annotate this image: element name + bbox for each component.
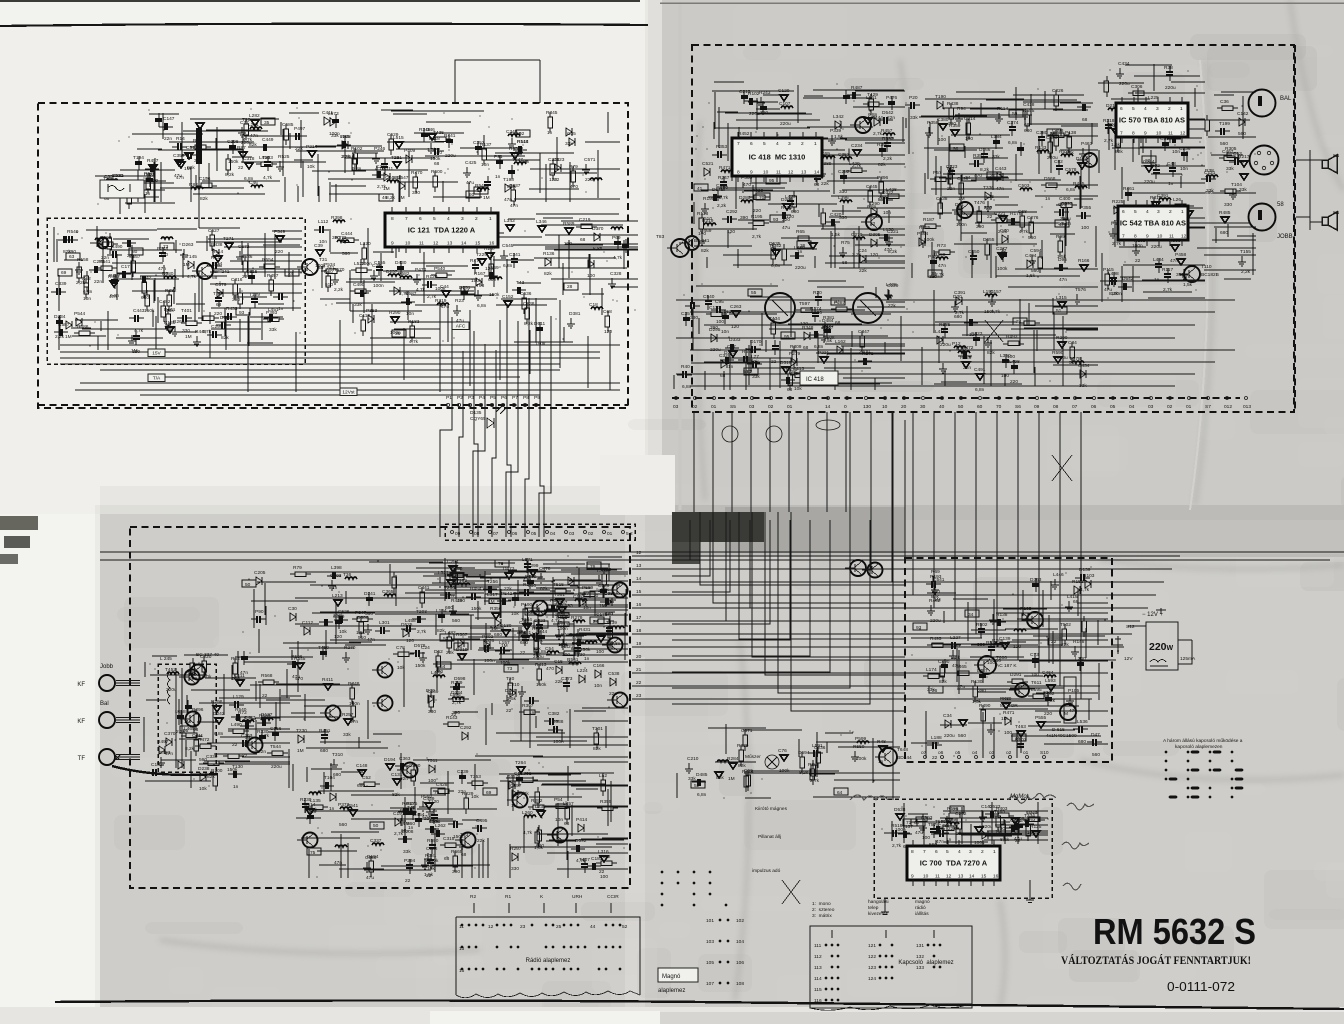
svg-text:14: 14 (636, 576, 642, 582)
svg-text:T452: T452 (165, 667, 176, 673)
svg-text:R1: R1 (505, 894, 511, 900)
svg-text:T336: T336 (983, 185, 994, 191)
svg-text:L26: L26 (1173, 197, 1181, 203)
svg-text:4,7k: 4,7k (719, 195, 729, 201)
svg-text:D411: D411 (532, 634, 543, 640)
svg-text:D47: D47 (1091, 732, 1100, 738)
svg-text:69: 69 (61, 270, 67, 276)
svg-text:P91: P91 (494, 154, 503, 160)
svg-text:R344: R344 (742, 769, 754, 775)
svg-text:R467: R467 (556, 600, 568, 606)
svg-text:02: 02 (768, 404, 774, 410)
svg-text:T43: T43 (516, 280, 525, 286)
svg-text:01: 01 (787, 404, 793, 410)
svg-text:C276: C276 (1027, 215, 1039, 221)
svg-text:rádió: rádió (915, 905, 926, 911)
svg-text:L188: L188 (931, 735, 942, 741)
svg-text:76: 76 (590, 564, 596, 570)
svg-text:C221: C221 (994, 211, 1006, 217)
svg-text:82k: 82k (540, 586, 548, 592)
svg-text:C490: C490 (938, 659, 950, 665)
svg-text:6: 6 (419, 216, 422, 222)
svg-text:P2: P2 (457, 395, 463, 401)
svg-text:25: 25 (556, 924, 562, 930)
svg-text:1M: 1M (958, 196, 965, 202)
svg-text:51: 51 (1056, 308, 1062, 314)
svg-text:T198: T198 (503, 177, 514, 183)
svg-text:R379: R379 (737, 743, 749, 749)
svg-text:5: 5 (763, 141, 766, 147)
svg-text:C425: C425 (465, 160, 477, 166)
svg-text:D538: D538 (894, 807, 906, 813)
svg-text:D265: D265 (781, 197, 793, 203)
svg-text:C183: C183 (591, 856, 603, 862)
svg-text:R587: R587 (58, 322, 70, 328)
svg-text:C121: C121 (1204, 170, 1216, 176)
svg-text:o4: o4 (972, 750, 978, 756)
svg-text:D223: D223 (724, 350, 736, 356)
svg-text:03: 03 (569, 531, 575, 537)
svg-text:R207: R207 (1015, 737, 1027, 743)
svg-text:100: 100 (698, 231, 706, 237)
svg-text:470: 470 (546, 666, 554, 672)
svg-text:100: 100 (814, 310, 822, 316)
svg-text:8,2k: 8,2k (185, 746, 195, 752)
svg-text:100: 100 (938, 137, 946, 143)
svg-text:108: 108 (736, 981, 744, 987)
svg-text:R79: R79 (569, 164, 578, 170)
svg-text:100: 100 (965, 136, 973, 142)
svg-text:C328: C328 (610, 271, 622, 277)
svg-text:220u: 220u (1047, 155, 1058, 161)
svg-text:10k: 10k (427, 866, 435, 872)
svg-text:112: 112 (814, 954, 822, 960)
svg-text:C102: C102 (151, 762, 163, 768)
svg-text:D363: D363 (1030, 577, 1042, 583)
svg-text:131: 131 (916, 943, 924, 949)
svg-text:MOTOR: MOTOR (1000, 703, 1018, 709)
svg-text:P1: P1 (446, 395, 452, 401)
svg-text:R495: R495 (930, 636, 942, 642)
svg-text:100n: 100n (349, 701, 360, 707)
svg-text:D568: D568 (1044, 176, 1056, 182)
svg-text:T83: T83 (656, 234, 665, 240)
svg-text:100n: 100n (956, 222, 967, 228)
svg-text:R187: R187 (923, 217, 935, 223)
svg-text:D208: D208 (402, 829, 414, 835)
svg-text:IC 700 TDA 7270 A: IC 700 TDA 7270 A (920, 859, 988, 868)
svg-text:47n: 47n (1059, 277, 1067, 283)
svg-text:L343: L343 (504, 218, 515, 224)
svg-text:680: 680 (488, 277, 496, 283)
svg-text:P497: P497 (294, 126, 306, 132)
svg-text:100: 100 (1004, 730, 1012, 736)
svg-text:R40: R40 (681, 364, 690, 370)
svg-text:P409: P409 (404, 148, 416, 154)
svg-text:76: 76 (498, 561, 504, 567)
svg-text:T41: T41 (407, 805, 416, 811)
svg-text:R589: R589 (563, 221, 575, 227)
svg-text:330: 330 (428, 709, 436, 715)
svg-text:R38: R38 (1164, 65, 1173, 71)
svg-text:C338: C338 (552, 719, 564, 725)
svg-text:100k: 100k (779, 768, 790, 774)
svg-text:R135: R135 (211, 255, 223, 261)
svg-text:01: 01 (711, 404, 717, 410)
svg-text:100: 100 (922, 835, 930, 841)
svg-text:R398: R398 (331, 215, 343, 221)
svg-text:13: 13 (636, 563, 642, 569)
svg-text:100n: 100n (1132, 243, 1143, 249)
svg-text:D238: D238 (198, 766, 210, 772)
svg-text:R319: R319 (435, 298, 447, 304)
svg-text:o3: o3 (989, 750, 995, 756)
svg-text:C278: C278 (93, 259, 105, 265)
svg-text:AFC: AFC (456, 324, 466, 330)
svg-text:01: 01 (607, 531, 613, 537)
svg-text:02: 02 (1167, 404, 1173, 410)
svg-text:C585: C585 (282, 122, 294, 128)
svg-text:26: 26 (932, 688, 938, 694)
svg-text:22: 22 (554, 177, 560, 183)
svg-text:R431: R431 (579, 627, 591, 633)
svg-text:C210: C210 (687, 756, 699, 762)
svg-text:C226: C226 (1052, 88, 1064, 94)
svg-text:P90: P90 (255, 609, 264, 615)
svg-text:1M: 1M (185, 334, 192, 340)
svg-text:50: 50 (245, 582, 251, 588)
svg-text:T611: T611 (1031, 680, 1042, 686)
svg-text:C263: C263 (730, 304, 742, 310)
svg-text:2: 2 (1169, 209, 1172, 215)
svg-text:R475: R475 (470, 258, 482, 264)
svg-text:47u: 47u (915, 830, 923, 836)
svg-text:05: 05 (531, 531, 537, 537)
svg-text:6,8n: 6,8n (771, 263, 781, 269)
svg-text:C347: C347 (858, 329, 870, 335)
svg-text:impulzus adó: impulzus adó (752, 868, 781, 874)
svg-text:120: 120 (1107, 123, 1115, 129)
svg-text:D234: D234 (451, 690, 463, 696)
svg-text:680: 680 (1205, 190, 1213, 196)
svg-text:R309: R309 (790, 344, 802, 350)
svg-text:C39: C39 (314, 243, 323, 249)
svg-text:C538: C538 (608, 671, 620, 677)
svg-text:R114: R114 (212, 249, 223, 255)
svg-text:C156: C156 (199, 176, 211, 182)
svg-text:P339: P339 (830, 128, 842, 134)
svg-text:T194: T194 (133, 155, 144, 161)
svg-text:C210: C210 (508, 682, 520, 688)
svg-text:C166: C166 (593, 663, 605, 669)
svg-text:2,7k: 2,7k (955, 310, 965, 316)
svg-text:R471: R471 (1003, 710, 1015, 716)
svg-text:L25: L25 (986, 194, 994, 200)
svg-text:C503: C503 (1018, 183, 1030, 189)
svg-text:34: 34 (968, 612, 974, 618)
svg-text:2: 2 (801, 141, 804, 147)
svg-text:5: 5 (1134, 209, 1137, 215)
svg-text:C36: C36 (1220, 99, 1229, 105)
svg-text:R487: R487 (851, 85, 863, 91)
svg-text:1M: 1M (65, 334, 72, 340)
svg-text:100: 100 (997, 826, 1005, 832)
svg-text:C35: C35 (681, 311, 690, 317)
svg-text:10n: 10n (883, 210, 891, 216)
svg-text:68: 68 (216, 302, 222, 308)
svg-text:100: 100 (587, 273, 595, 279)
svg-text:Műszer: Műszer (745, 754, 761, 760)
svg-text:12: 12 (433, 241, 439, 247)
svg-text:150k: 150k (471, 606, 482, 612)
svg-text:10: 10 (1157, 234, 1163, 240)
svg-text:6,8n: 6,8n (593, 246, 603, 252)
svg-text:120: 120 (485, 266, 493, 272)
svg-text:L320: L320 (360, 241, 371, 247)
svg-text:T110: T110 (1201, 264, 1212, 270)
svg-text:P5: P5 (490, 395, 496, 401)
svg-text:L112: L112 (318, 219, 329, 225)
svg-text:C54: C54 (545, 646, 554, 652)
svg-text:1M: 1M (183, 262, 190, 268)
svg-text:L458: L458 (405, 618, 416, 624)
svg-text:1n: 1n (332, 585, 338, 591)
svg-text:120: 120 (870, 252, 878, 258)
svg-text:P182: P182 (445, 573, 457, 579)
svg-text:330: 330 (839, 189, 847, 195)
svg-text:C73: C73 (1030, 652, 1039, 658)
svg-text:C540: C540 (703, 294, 715, 300)
svg-text:13: 13 (447, 241, 453, 247)
svg-text:T229: T229 (476, 252, 487, 258)
svg-text:11: 11 (419, 241, 424, 247)
svg-text:2: 2 (981, 849, 984, 855)
svg-text:10k: 10k (1027, 830, 1035, 836)
svg-text:P287: P287 (834, 300, 846, 306)
svg-text:D160: D160 (505, 688, 517, 694)
svg-text:52: 52 (694, 783, 700, 789)
svg-text:P9: P9 (534, 395, 540, 401)
svg-text:3: 3 (1157, 209, 1160, 215)
svg-text:64: 64 (837, 790, 843, 796)
svg-text:o2: o2 (1006, 750, 1012, 756)
svg-text:R561: R561 (567, 657, 579, 663)
svg-text:9: 9 (911, 874, 914, 880)
svg-text:C434: C434 (1078, 363, 1090, 369)
svg-text:R69: R69 (931, 569, 940, 575)
svg-text:o5: o5 (955, 750, 961, 756)
svg-text:Pillanat állj: Pillanat állj (758, 834, 781, 840)
svg-text:4,7k: 4,7k (613, 255, 623, 261)
svg-text:R95: R95 (509, 146, 518, 152)
svg-text:2,2k: 2,2k (334, 287, 344, 293)
svg-text:8,2k: 8,2k (225, 172, 235, 178)
svg-text:4,7k: 4,7k (409, 339, 419, 345)
svg-text:15V: 15V (152, 351, 161, 357)
svg-text:L260: L260 (522, 810, 533, 816)
svg-text:M: M (1064, 711, 1068, 717)
svg-text:P105: P105 (1068, 688, 1080, 694)
svg-text:R290: R290 (389, 310, 401, 316)
svg-text:L317: L317 (487, 592, 498, 598)
svg-text:330: 330 (1224, 202, 1232, 208)
svg-text:12: 12 (488, 924, 494, 930)
svg-text:390: 390 (452, 869, 460, 875)
svg-text:R217: R217 (1238, 154, 1250, 160)
svg-text:D135: D135 (470, 410, 482, 416)
svg-text:510: 510 (325, 282, 333, 288)
svg-text:220u: 220u (780, 121, 791, 127)
svg-text:L346: L346 (536, 219, 547, 225)
svg-text:T264: T264 (515, 760, 526, 766)
svg-text:C359: C359 (173, 153, 185, 159)
svg-text:03: 03 (1148, 404, 1154, 410)
svg-text:1M: 1M (184, 166, 191, 172)
svg-text:2,7k: 2,7k (394, 831, 404, 837)
svg-text:R257: R257 (342, 712, 354, 718)
svg-text:R311: R311 (382, 166, 393, 172)
svg-text:L468: L468 (175, 709, 186, 715)
svg-text:D257: D257 (386, 269, 398, 275)
svg-text:22k: 22k (295, 146, 303, 152)
svg-text:R540: R540 (67, 229, 79, 235)
svg-text:8: 8 (1132, 131, 1135, 137)
svg-text:390: 390 (976, 224, 984, 230)
svg-text:C380: C380 (937, 117, 949, 123)
svg-text:6,8n: 6,8n (682, 384, 692, 390)
svg-text:9: 9 (750, 170, 753, 176)
svg-text:R502: R502 (976, 622, 988, 628)
svg-text:03: 03 (749, 404, 755, 410)
svg-text:BC 337-40: BC 337-40 (196, 652, 219, 658)
svg-text:C437: C437 (244, 715, 256, 721)
svg-text:05: 05 (1110, 404, 1116, 410)
svg-text:2,2k: 2,2k (717, 203, 727, 209)
svg-text:C150: C150 (968, 249, 980, 255)
svg-text:C339: C339 (55, 281, 67, 287)
svg-text:680: 680 (357, 783, 365, 789)
svg-text:iállítás: iállítás (915, 911, 929, 917)
svg-text:21: 21 (990, 173, 996, 179)
svg-text:C370: C370 (164, 731, 176, 737)
svg-text:47u: 47u (174, 173, 182, 179)
svg-text:36: 36 (395, 331, 401, 337)
svg-text:R500: R500 (431, 169, 443, 175)
svg-text:C107: C107 (779, 101, 791, 107)
svg-text:C205: C205 (254, 570, 266, 576)
svg-text:10n: 10n (1172, 149, 1180, 155)
svg-text:T353: T353 (470, 774, 481, 780)
svg-text:1n: 1n (1154, 277, 1160, 283)
svg-text:10n: 10n (83, 296, 91, 302)
svg-text:6: 6 (1120, 106, 1123, 112)
svg-text:T155: T155 (1240, 249, 1251, 255)
svg-text:28: 28 (567, 284, 573, 290)
svg-text:D241: D241 (364, 591, 376, 597)
svg-text:kivezetés: kivezetés (868, 911, 889, 917)
svg-text:150k: 150k (144, 308, 155, 314)
svg-text:4,7k: 4,7k (1019, 229, 1029, 235)
svg-text:300Ω: 300Ω (112, 173, 124, 179)
svg-text:10n: 10n (597, 632, 605, 638)
svg-text:C245: C245 (866, 184, 878, 190)
svg-text:12Vst: 12Vst (342, 390, 355, 396)
svg-text:22: 22 (932, 755, 938, 761)
svg-text:07: 07 (1072, 404, 1078, 410)
svg-text:C349: C349 (506, 129, 518, 135)
svg-text:C15: C15 (554, 659, 563, 665)
svg-text:C277: C277 (996, 246, 1008, 252)
svg-text:R270: R270 (344, 645, 356, 651)
svg-text:33k: 33k (403, 849, 411, 855)
svg-text:C444: C444 (341, 231, 353, 237)
svg-text:390: 390 (1176, 272, 1184, 278)
svg-text:22: 22 (242, 753, 248, 759)
svg-text:12: 12 (1181, 234, 1187, 240)
svg-text:L457: L457 (563, 801, 574, 807)
svg-text:510: 510 (932, 589, 940, 595)
svg-text:47u: 47u (366, 875, 374, 881)
svg-text:C236: C236 (1179, 146, 1191, 152)
svg-text:220: 220 (782, 217, 790, 223)
svg-text:1n: 1n (1045, 196, 1051, 202)
svg-text:116: 116 (814, 998, 822, 1004)
svg-text:330: 330 (929, 274, 937, 280)
svg-text:C514: C514 (304, 802, 316, 808)
svg-text:D381: D381 (569, 311, 581, 317)
svg-text:47n: 47n (158, 266, 166, 272)
svg-text:D124: D124 (1076, 156, 1088, 162)
svg-text:C219: C219 (579, 217, 591, 223)
svg-text:VÁLTOZTATÁS JOGÁT FENNTARTJUK!: VÁLTOZTATÁS JOGÁT FENNTARTJUK! (1061, 953, 1251, 967)
svg-text:82k: 82k (437, 628, 445, 634)
svg-text:R413: R413 (535, 662, 547, 668)
svg-text:47u: 47u (1059, 222, 1067, 228)
svg-text:D555: D555 (983, 237, 995, 243)
svg-text:T606: T606 (996, 655, 1007, 661)
svg-text:L130: L130 (883, 227, 894, 233)
svg-text:04: 04 (1129, 404, 1135, 410)
svg-text:R449: R449 (195, 329, 207, 335)
svg-text:560: 560 (1028, 235, 1036, 241)
svg-text:04: 04 (550, 531, 556, 537)
svg-text:R99: R99 (1056, 234, 1065, 240)
svg-text:22: 22 (1145, 158, 1151, 164)
svg-text:P414: P414 (576, 817, 588, 823)
svg-text:2,2k: 2,2k (951, 655, 961, 661)
svg-text:T429: T429 (867, 92, 878, 98)
svg-text:6,8n: 6,8n (244, 176, 254, 182)
svg-text:100n: 100n (373, 283, 384, 289)
svg-text:100k: 100k (558, 642, 569, 648)
svg-text:75: 75 (310, 850, 316, 856)
svg-text:121: 121 (868, 943, 876, 949)
svg-text:220u: 220u (1057, 355, 1068, 361)
svg-text:470: 470 (884, 247, 892, 253)
svg-text:1M: 1M (1001, 716, 1008, 722)
svg-text:0: 0 (844, 404, 847, 410)
svg-text:R441: R441 (444, 133, 456, 139)
svg-text:8,2k: 8,2k (1000, 837, 1010, 843)
svg-text:3: 3 (461, 216, 464, 222)
svg-text:R23: R23 (455, 298, 464, 304)
svg-text:R94: R94 (957, 106, 966, 112)
svg-text:R578: R578 (144, 171, 156, 177)
svg-text:23: 23 (636, 693, 642, 699)
svg-text:22k: 22k (446, 650, 454, 656)
svg-text:1n: 1n (329, 806, 335, 812)
svg-text:C270: C270 (851, 232, 863, 238)
